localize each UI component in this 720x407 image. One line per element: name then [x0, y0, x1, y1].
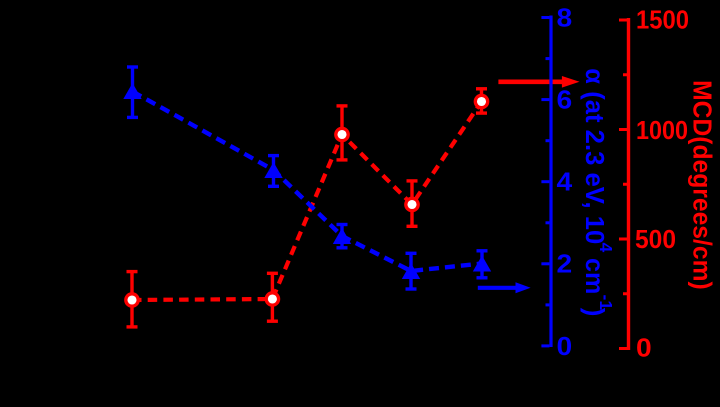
- blue triangle marker 4: [402, 263, 420, 279]
- red circle marker 4: [406, 198, 418, 210]
- blue triangle marker 5: [473, 256, 491, 272]
- red y-axis minor ticks: [623, 75, 627, 294]
- blue dashed line series alpha: [133, 92, 483, 272]
- svg-text:6: 6: [557, 85, 573, 115]
- svg-text:500: 500: [635, 224, 676, 254]
- blue error bar 2: [268, 156, 279, 187]
- red error bar 2: [267, 273, 278, 321]
- red circle marker 1: [126, 294, 138, 306]
- blue error bar 3: [337, 225, 348, 248]
- red error bar 3: [337, 106, 348, 160]
- red error bar 1: [127, 272, 138, 327]
- blue axis title alpha (at 2.3 eV, 10^4 cm^-1): [580, 68, 616, 316]
- blue arrow to right axis: [478, 282, 531, 293]
- blue y-axis major ticks: [541, 18, 549, 346]
- svg-text:1000: 1000: [636, 115, 688, 145]
- svg-text:4: 4: [557, 167, 573, 197]
- red circle marker 3: [336, 128, 348, 140]
- svg-text:0: 0: [557, 331, 573, 361]
- svg-text:α (at 2.3 eV, 104cm-1): α (at 2.3 eV, 104cm-1): [580, 68, 616, 316]
- blue error bar 5: [477, 251, 488, 278]
- red axis title MCD(degrees/cm): [688, 80, 718, 290]
- blue y-axis minor ticks: [546, 59, 550, 305]
- red arrow to right axis: [498, 76, 579, 88]
- red y-axis line: [627, 18, 630, 350]
- blue triangle marker 1: [123, 83, 141, 99]
- blue triangle marker 2: [264, 162, 282, 178]
- svg-text:2: 2: [557, 249, 573, 279]
- svg-text:MCD(degrees/cm): MCD(degrees/cm): [688, 80, 718, 290]
- svg-text:0: 0: [636, 333, 652, 363]
- blue y-axis line: [549, 16, 552, 348]
- red circle marker 2: [266, 293, 278, 305]
- red error bar 5: [476, 89, 487, 113]
- blue triangle marker 3: [333, 228, 351, 244]
- red error bar 4: [407, 181, 418, 226]
- red dashed line series MCD: [132, 102, 482, 301]
- red circle marker 5: [475, 95, 487, 107]
- svg-text:8: 8: [557, 2, 573, 32]
- blue error bar 4: [406, 253, 417, 289]
- blue error bar 1: [127, 67, 138, 117]
- red y-axis major ticks: [619, 20, 627, 349]
- svg-text:1500: 1500: [636, 4, 689, 34]
